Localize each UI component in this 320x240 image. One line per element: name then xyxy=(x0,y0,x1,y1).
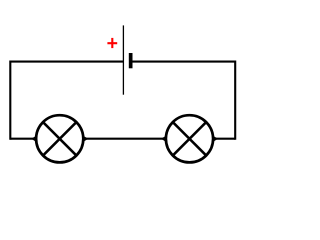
wire: bottom-right segment from lamp L2 to right rail xyxy=(213,138,235,140)
wire: top-left segment from left rail to battery positive plate xyxy=(10,61,123,63)
wire: left vertical rail xyxy=(9,61,11,140)
lamp L1: left terminal flare xyxy=(31,135,37,142)
lamp L2: right terminal flare xyxy=(212,135,218,142)
polarity label: red plus sign xyxy=(107,38,117,48)
battery cell B1: long thin positive plate xyxy=(122,25,124,94)
lamp L2: circle outline xyxy=(166,115,213,162)
wire: bottom-left segment from left rail to lamp L1 xyxy=(10,138,33,140)
battery cell B1: short thick negative plate xyxy=(129,53,133,68)
wire: top-right segment from battery negative plate to right rail xyxy=(131,61,235,63)
lamp L2: X cross xyxy=(173,122,206,155)
wire: right vertical rail xyxy=(234,61,236,140)
lamp L1: circle outline xyxy=(36,115,83,162)
lamp L1: X cross xyxy=(43,122,76,155)
lamp L1: right terminal flare xyxy=(82,135,88,142)
lamp L2: left terminal flare xyxy=(161,135,167,142)
wire: bottom-middle segment between lamp L1 and lamp L2 xyxy=(85,138,166,140)
